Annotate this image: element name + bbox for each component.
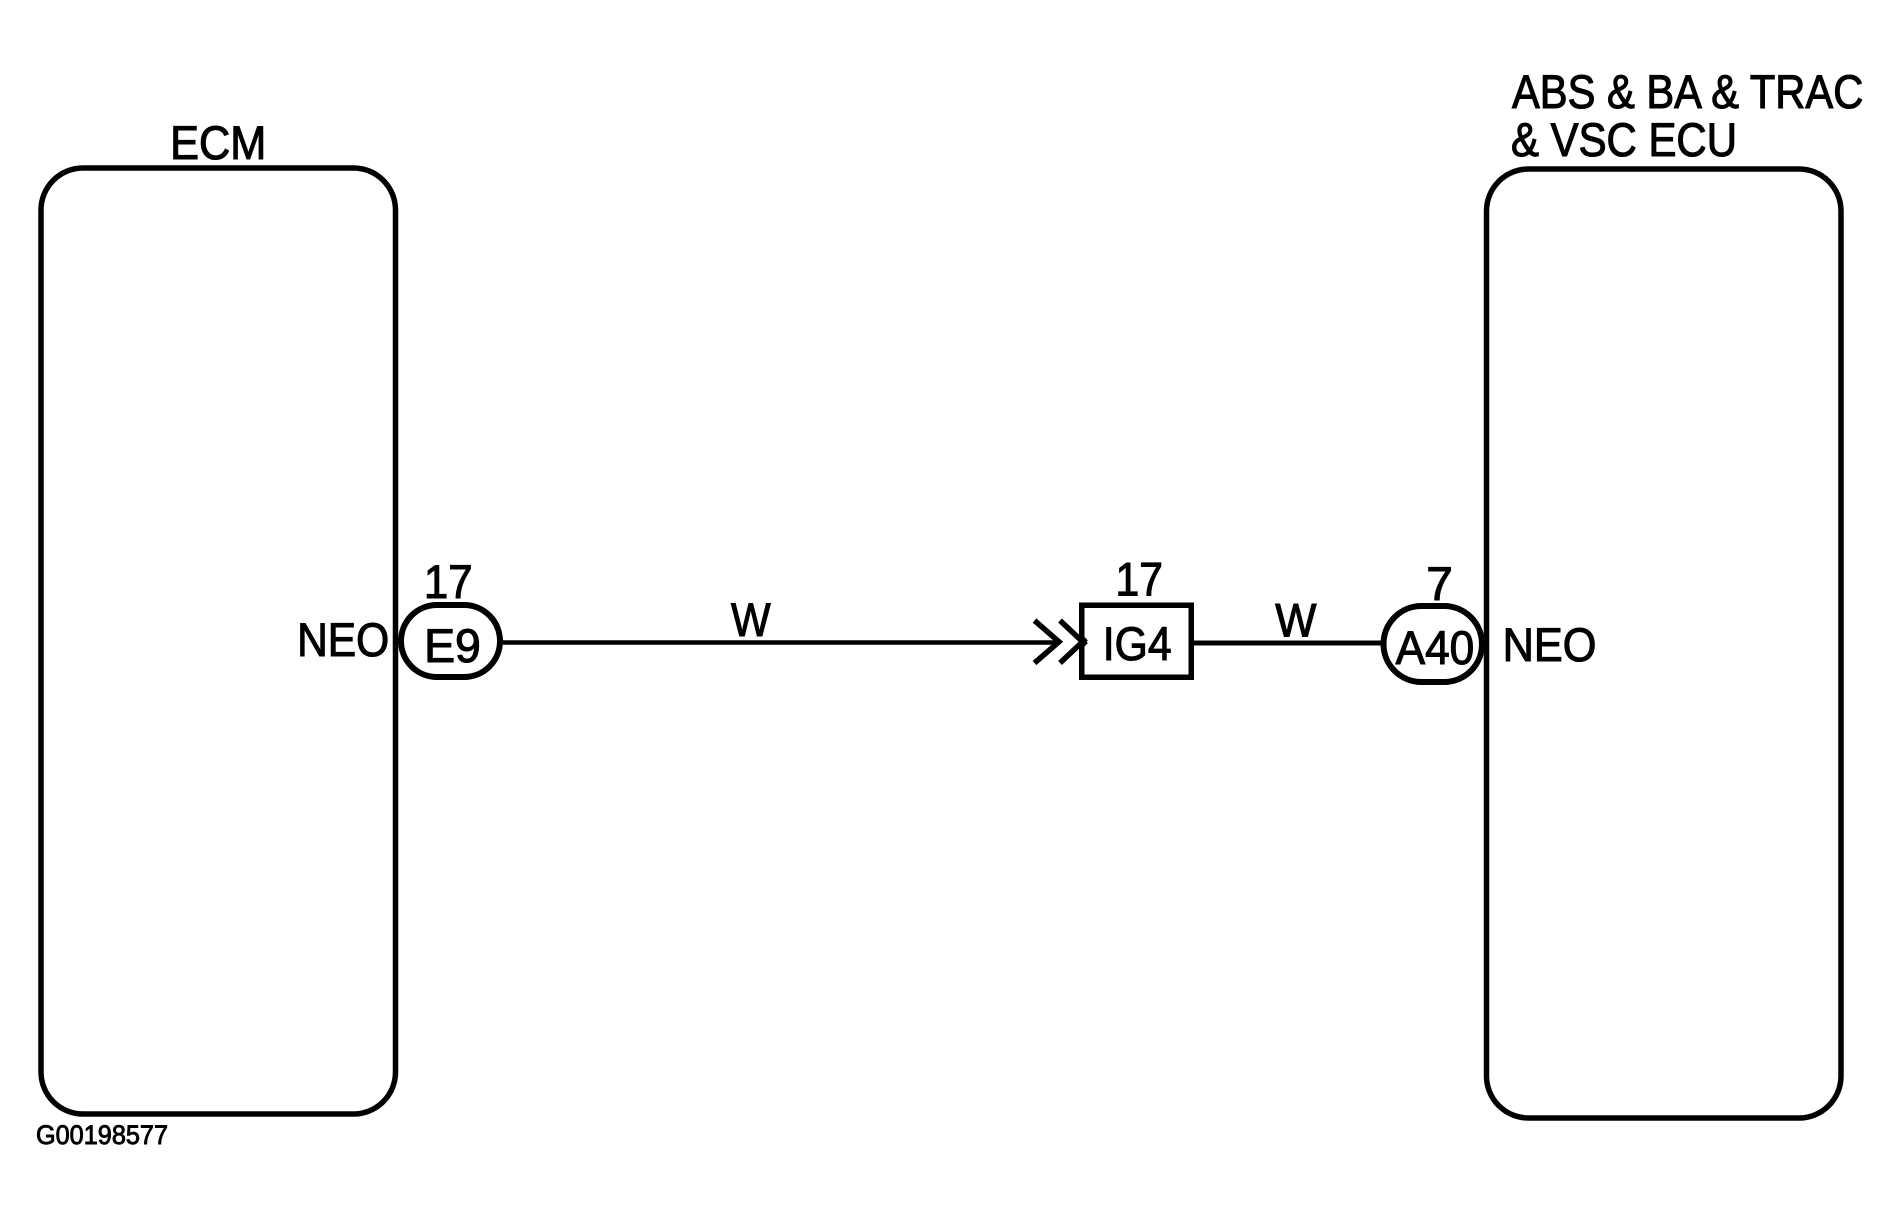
- pin 17 of IG4: [1116, 553, 1163, 606]
- net label NEO (ECM side): [297, 613, 389, 666]
- svg-text:IG4: IG4: [1103, 617, 1172, 670]
- splice arrow >>: [1035, 621, 1087, 664]
- svg-text:W: W: [1275, 594, 1317, 647]
- svg-text:17: 17: [424, 555, 473, 608]
- svg-text:G00198577: G00198577: [36, 1120, 168, 1150]
- svg-text:W: W: [731, 593, 771, 646]
- component ABS & BA & TRAC & VSC ECU box: [1487, 169, 1842, 1118]
- svg-text:17: 17: [1116, 553, 1163, 606]
- svg-text:& VSC ECU: & VSC ECU: [1511, 113, 1737, 166]
- svg-text:ABS & BA & TRAC: ABS & BA & TRAC: [1512, 65, 1863, 118]
- connector A40: [1384, 606, 1483, 682]
- label ECM: [170, 116, 266, 169]
- figure id G00198577: [36, 1120, 168, 1150]
- pin 17 of E9: [424, 555, 473, 608]
- label ABS & BA & TRAC & VSC ECU: [1511, 65, 1863, 166]
- svg-text:NEO: NEO: [1503, 618, 1597, 671]
- connector E9: [401, 605, 500, 677]
- wire IG4 to A40: [1194, 641, 1381, 646]
- pin 7 of A40: [1426, 557, 1453, 610]
- wire E9 to IG4: [503, 640, 1058, 645]
- component ECM box: [41, 168, 396, 1114]
- svg-text:ECM: ECM: [170, 116, 266, 169]
- wire color label W (left): [731, 593, 771, 646]
- svg-text:NEO: NEO: [297, 613, 389, 666]
- net label NEO (ABS side): [1503, 618, 1597, 671]
- svg-text:7: 7: [1426, 557, 1453, 610]
- wire color label W (right): [1275, 594, 1317, 647]
- connector IG4: [1082, 605, 1192, 677]
- svg-text:E9: E9: [424, 619, 481, 672]
- svg-text:A40: A40: [1396, 621, 1475, 674]
